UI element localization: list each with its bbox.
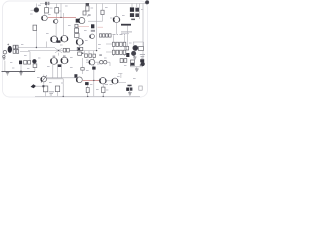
resistor R8 [75, 28, 79, 33]
wire pot bottom [44, 67, 58, 96]
vas dark cap [76, 19, 80, 23]
resistor bank r1c4 [123, 42, 126, 46]
wire X diagonals [55, 48, 62, 53]
capacitor C3 [130, 7, 134, 11]
capacitor C22 [130, 88, 133, 91]
transistor Q9 eye [113, 16, 119, 22]
resistor row b1 [85, 54, 88, 57]
label dashrow [113, 34, 126, 36]
capacitor C21 [126, 88, 129, 91]
wire c18 drop [93, 70, 95, 80]
label dashes q28 [105, 83, 113, 85]
ground G4 [135, 69, 139, 71]
wire x63.2 bottom [62, 79, 64, 97]
capacitor C19 [85, 82, 89, 85]
transistor Q2 [42, 15, 47, 20]
transistor Q16 [131, 51, 135, 55]
jack ground chain [3, 55, 6, 59]
resistor R6 [101, 10, 104, 14]
connector jack1 [3, 51, 6, 54]
resistor R10 [77, 47, 83, 50]
resistor R13 small [126, 46, 129, 50]
capacitor C4 [135, 8, 139, 12]
transistor Q23 pot [41, 75, 47, 82]
dark bar mid [56, 40, 60, 42]
wire vertical x61 [60, 4, 62, 18]
wire vertical x63.4 [62, 13, 64, 35]
transistor Q10 [90, 34, 94, 38]
capacitor boxes input1 [13, 45, 18, 49]
resistor box R21 [120, 59, 123, 63]
resistor row b2 [89, 54, 92, 57]
capacitor C7 [91, 24, 94, 28]
resistor box R22 [124, 59, 127, 63]
capacitor input1 [8, 46, 12, 53]
wire vertical x102.5 [102, 4, 104, 22]
wire vertical x87.8 [87, 15, 89, 17]
wire y21.2 [88, 20, 103, 22]
transistor Q27 [77, 77, 83, 83]
wire q29 right [118, 81, 126, 82]
transistor Q15 [133, 46, 138, 51]
wire vertical x44.8 [44, 13, 46, 15]
resistor R4 chain top [86, 3, 89, 11]
red wire upper [48, 16, 76, 18]
red wire lower [83, 79, 100, 81]
resistor bank r2c1 [112, 50, 115, 54]
transistor Q3 [54, 19, 58, 23]
resistor R1 [45, 8, 49, 13]
dark arrow left [31, 84, 36, 88]
wire eye drops [53, 64, 62, 78]
wire vas column [77, 24, 80, 48]
big eye E2 [61, 35, 68, 42]
border frame [3, 1, 148, 97]
capacitor C9 low [19, 61, 22, 65]
diode D4 [109, 34, 111, 37]
resistor R23 faint [139, 86, 142, 90]
big eye E1 [51, 36, 58, 43]
resistor R16 [43, 86, 47, 92]
resistor bank r1c3 [120, 42, 123, 46]
transistor Q29 eye [112, 78, 118, 84]
wire vertical x36.4 [35, 31, 37, 48]
wire vertical x132 stub [132, 4, 137, 8]
transistor Q28 eye [100, 78, 106, 84]
ground G5 [128, 93, 132, 95]
capacitor C20 [130, 60, 134, 66]
capacitor C1 top [45, 2, 49, 5]
wire rows right of resistor row [85, 51, 94, 54]
wire vertical x46.3 [45, 42, 47, 48]
wire jack1 drop [4, 54, 6, 56]
diode D3 [106, 34, 108, 37]
wire input2 row [20, 52, 30, 61]
red dashes mid [79, 26, 104, 29]
capacitor boxes input2 [13, 50, 19, 54]
wire bp row [70, 49, 77, 51]
resistor stack R18 [81, 68, 84, 71]
transistor Q18 [33, 59, 37, 63]
resistor R7 [75, 24, 78, 27]
wire vertical x127.3 [126, 26, 128, 47]
label smudges [10, 5, 143, 91]
wire vertical x36.3 [35, 4, 37, 8]
wire vertical x56.6 [56, 4, 58, 20]
wire q16 region [134, 42, 136, 56]
capacitor C18 [92, 67, 95, 70]
diode D1 [99, 34, 101, 37]
wire vertical x46.5 [46, 4, 48, 8]
resistor R11 [78, 52, 84, 55]
transistor Q5 vas [79, 18, 85, 24]
ground bus [2, 70, 36, 72]
wire stub Q1 left [31, 9, 35, 11]
resistor bank r2c4 [123, 50, 126, 54]
resistor R2 [55, 8, 59, 13]
wire y77.8 [46, 77, 77, 79]
label marks c7 [91, 30, 95, 32]
resistor row b3 [93, 54, 96, 57]
resistor R17 [55, 86, 59, 92]
wire arrow to box [35, 68, 44, 87]
diode D2 [103, 34, 105, 37]
resistor R15 low [28, 61, 31, 65]
wire bank stubs [106, 35, 125, 56]
capacitor dark right [126, 53, 129, 57]
ground G3 [19, 71, 22, 76]
wire caps bottom right [129, 86, 131, 92]
wire box drops bottom [88, 84, 104, 96]
dark blob left stack [74, 74, 77, 77]
label dash b4 [99, 54, 102, 56]
plus mark [7, 44, 9, 46]
wire vertical x116.5 [116, 4, 118, 35]
wire y50.6 to box [79, 51, 81, 52]
resistor R9 [75, 34, 79, 38]
resistor R5 chain [83, 11, 86, 15]
resistor R20 [102, 87, 105, 93]
resistor bank r1c2 [116, 42, 119, 46]
wire vertical x96.6 main upper [96, 4, 98, 51]
wire mid rail [28, 50, 97, 52]
wire x82.3 stack [81, 58, 83, 74]
label dash q7 [88, 14, 91, 15]
resistor under Q18 [33, 64, 37, 68]
wire top rail [40, 3, 146, 5]
dark dot r16 [42, 85, 44, 87]
resistor R3 [33, 25, 37, 30]
wire pot right [47, 78, 64, 80]
wire vertical x143 right [142, 4, 144, 60]
wire y66.8 right [130, 66, 142, 69]
label dash caps [131, 19, 135, 21]
resistor R12 [139, 46, 144, 50]
wire pot top [43, 75, 45, 77]
connector top right [145, 1, 148, 4]
transistor Q11 eye [77, 39, 84, 46]
wire y80.4 right of q28 [106, 80, 112, 82]
resistor bp2 [67, 48, 70, 52]
big eye E4 [61, 57, 68, 64]
wire X to eyes [58, 53, 60, 56]
resistor R14 low [24, 61, 27, 65]
ground G2 [6, 73, 9, 75]
resistor bp1 [63, 48, 66, 52]
transistor Q24 [89, 59, 95, 65]
wire vertical x139.5 [139, 4, 141, 20]
big eye E3 [51, 58, 58, 65]
wire vertical x93.8 main lower [93, 55, 95, 96]
resistor bank r2c2 [116, 50, 119, 54]
label marks pot [49, 92, 54, 95]
wire q24 area [86, 62, 110, 66]
transistor Q1 [34, 8, 39, 13]
junction dots [36, 17, 142, 97]
capacitor C6 [135, 13, 139, 17]
thick bar [121, 24, 131, 26]
capacitor C5 [130, 13, 134, 17]
wire q27 stub [75, 76, 77, 79]
resistor bank r1c1 [112, 42, 115, 46]
resistor bank r2c3 [120, 50, 123, 54]
resistor R19 [86, 88, 89, 93]
wire eye stubs top [54, 56, 65, 58]
stub boxes above eyes [53, 55, 66, 57]
transistor Q26 small [104, 61, 107, 64]
connector out dark [140, 59, 145, 66]
label dashes bar [121, 31, 132, 32]
wire y42 right [133, 42, 144, 46]
wire bottom rail [35, 95, 140, 97]
wire y73.4 stub [118, 73, 122, 78]
transistor Q25 small [100, 61, 103, 64]
ground G1 [133, 56, 137, 59]
dark bar low [58, 64, 62, 67]
wire vertical x56.1 [55, 23, 57, 36]
wire cap2 drops [5, 61, 21, 72]
dash cluster bottom right [127, 85, 131, 87]
wire input1 row [18, 47, 55, 49]
label marks right [140, 54, 145, 58]
